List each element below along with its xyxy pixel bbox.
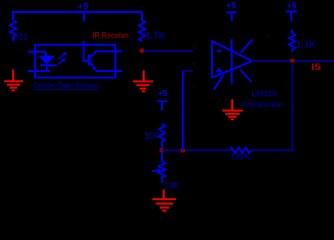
ground (left, under R1) [4,70,23,92]
wire base lead horizontal [83,60,89,62]
wire top +5 rail [12,11,143,13]
wire R1 bottom lead [12,37,14,41]
svg-text:+5: +5 [287,0,297,10]
node junction dot (collector / R2 / inverting input) [139,48,144,53]
node +5 top rail [12,1,143,13]
wire R6 bottom lead [291,49,293,52]
resistor R1 510 [10,13,28,44]
minus input symbol [217,50,222,52]
emitter arrowhead [91,66,96,71]
ground (middle, emitter) [133,70,153,92]
IR emission arrow 2 [59,58,66,65]
erased pin mark near inverting input [192,45,197,50]
wire feedback drop [292,62,294,151]
svg-text:10K: 10K [164,180,179,190]
node +5 (comparator) [226,0,236,21]
phototransistor Q1 [88,52,96,71]
wire comparator output [251,60,334,62]
wire anode stub [28,51,46,53]
svg-text:Center Tape Sensor: Center Tape Sensor [34,81,99,90]
svg-text:I5: I5 [311,62,321,72]
IR emission arrow 1 [59,52,67,59]
label Center Tape Sensor [34,81,100,90]
erased pin mark near balance stub [266,34,271,39]
svg-text:1.1K: 1.1K [296,40,317,51]
wire + input horizontal [183,70,193,72]
svg-text:+5: +5 [158,88,168,98]
node +5 (middle divider) [157,88,168,110]
svg-text:IR Receive: IR Receive [92,30,129,40]
svg-text:+5: +5 [78,1,89,11]
wire R4 bottom lead [161,177,163,182]
ground (comparator) [222,99,242,120]
wire R2 top lead [141,13,143,21]
pin stub top-right [241,39,253,52]
svg-text:100K: 100K [231,152,251,161]
plus input symbol [216,70,222,72]
resistor R6 1.1K (pull-up) [289,30,317,52]
opto-interrupter box U1 [35,45,115,78]
wire R5 right lead [251,149,293,151]
resistor R5 100K (feedback) [230,148,293,162]
op-amp U2 LM319 comparator [212,39,253,90]
collector diagonal [91,52,96,57]
wire cathode lead [46,66,48,70]
node junction dot (divider node) [159,148,164,153]
power pin vertical [231,39,233,84]
wire divider node to + input riser [162,149,231,151]
node +5 (output pull-up) [286,0,297,21]
pin stub bottom-left [214,75,224,90]
wire R6 top lead [291,30,293,34]
wire R3 bottom lead [161,142,163,150]
svg-text:Comparator: Comparator [242,99,284,109]
cathode bar [40,64,57,66]
wire base drop (lower segment) [83,41,85,62]
svg-text:4.7K: 4.7K [144,31,166,42]
wire R1 top lead [12,13,14,21]
wire riser to + input [182,70,184,150]
node junction dot (+ input riser) [180,148,185,153]
erased pin mark near non-inverting input [192,63,197,68]
svg-text:+5: +5 [226,0,236,10]
emitter diagonal [91,63,94,66]
wire collector out [95,50,122,52]
svg-text:3: 3 [192,83,196,90]
wire R4 top lead [161,152,163,162]
svg-text:LM319: LM319 [251,89,277,99]
LED D1 (emitter diode) [28,51,57,72]
wire emitter out [96,70,123,72]
resistor R3 10K [144,124,165,150]
wire +5 stub to phototransistor base (upper segment) [83,13,85,22]
node junction dot (output) [290,59,295,64]
trimmer R4 10K [152,152,180,190]
resistor R2 4.7K [139,13,167,43]
wire inverting input [144,50,193,52]
ground (bottom, trimmer) [152,190,176,212]
svg-text:510: 510 [15,32,28,43]
pin stub bottom-right [241,70,252,82]
svg-text:10K: 10K [144,131,160,142]
base bar [88,55,91,66]
wire cathode stub [28,70,50,72]
wiper arrow [152,170,159,172]
